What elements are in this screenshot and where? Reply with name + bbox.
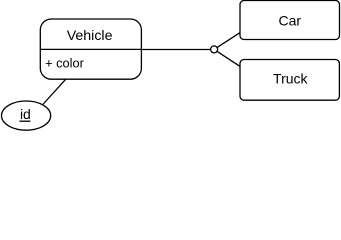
wire junction to Car bbox=[214, 32, 240, 49]
attribute ellipse id bbox=[2, 101, 51, 130]
svg-text:Car: Car bbox=[279, 13, 302, 29]
wire Vehicle to id ellipse bbox=[41, 79, 66, 106]
junction circle bbox=[211, 46, 218, 53]
svg-text:Truck: Truck bbox=[273, 70, 308, 86]
wire Vehicle to junction bbox=[141, 49, 211, 51]
svg-text:Vehicle: Vehicle bbox=[67, 28, 113, 44]
class box Car bbox=[240, 1, 340, 40]
underline of id bbox=[19, 120, 30, 122]
wire junction to Truck bbox=[214, 49, 240, 66]
divider Vehicle bbox=[40, 48, 141, 50]
class box Truck bbox=[240, 60, 339, 101]
svg-text:+ color: + color bbox=[45, 56, 85, 71]
svg-text:id: id bbox=[20, 106, 31, 122]
class box Vehicle bbox=[40, 19, 141, 79]
